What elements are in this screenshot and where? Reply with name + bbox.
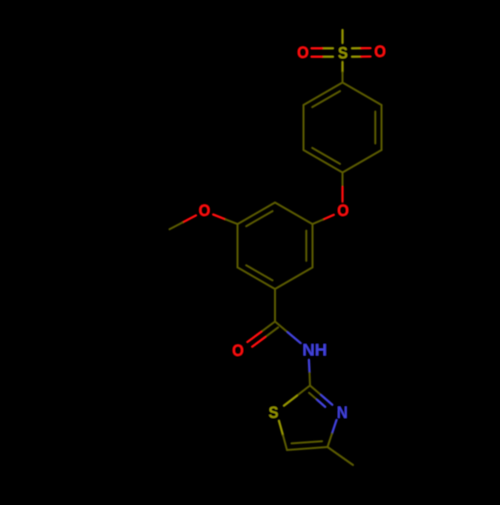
svg-text:O: O (297, 44, 309, 62)
svg-text:N: N (337, 404, 348, 422)
svg-text:O: O (232, 342, 244, 360)
bond: S=O left double (322, 47, 333, 49)
bond: S=O right double (352, 47, 361, 49)
svg-text:S: S (338, 44, 348, 62)
N-thiazole C2 bond (308, 360, 311, 373)
svg-text:O: O (337, 202, 349, 220)
thiazole C4=C5 double bond (287, 447, 328, 450)
ring2-amide C bond (274, 289, 276, 322)
amide C-N bond (275, 322, 288, 333)
methoxy O-ring bond (213, 215, 225, 220)
thiazole S-C5 bond (279, 421, 283, 436)
methoxy O-CH3 bond (183, 215, 196, 222)
benzene ring 2 (central) (275, 203, 313, 225)
benzene ring 1 (methylsulfonylphenyl) (343, 83, 382, 106)
svg-text:S: S (269, 404, 279, 422)
svg-text:NH: NH (302, 341, 327, 360)
bond: methyl CH3-S (341, 30, 343, 43)
svg-text:O: O (374, 43, 386, 61)
methyl on thiazole C4 (328, 447, 354, 465)
O ether-ring2 bond (323, 215, 334, 220)
thiazole C2-S bond (297, 386, 310, 396)
svg-text:O: O (199, 202, 211, 220)
bond: S-phenyl (341, 62, 343, 72)
amide C=O double bond (261, 322, 275, 332)
ring1-O ether bond (342, 173, 344, 188)
thiazole C2=N double bond (310, 386, 321, 396)
thiazole N-C4 bond (332, 420, 337, 434)
